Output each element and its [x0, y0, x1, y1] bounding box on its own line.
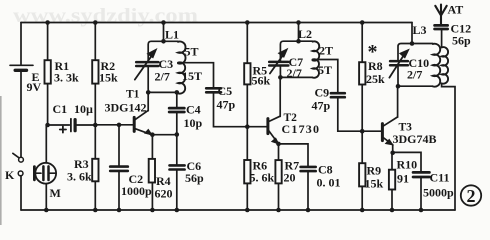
node R8 rail junction: [360, 20, 365, 25]
resistor R3: [67, 157, 99, 184]
node L2 tank top junction: [296, 39, 301, 44]
svg-text:R10: R10: [397, 158, 418, 172]
svg-text:25k: 25k: [366, 72, 385, 86]
svg-text:56p: 56p: [185, 171, 204, 185]
capacitor C2: [110, 125, 152, 210]
svg-text:5000p: 5000p: [423, 186, 454, 200]
variable capacitor C10: [389, 50, 429, 82]
inductor L1 coil: [165, 28, 202, 94]
svg-text:3DG142: 3DG142: [105, 101, 147, 115]
capacitor C11: [413, 171, 454, 211]
capacitor C9: [312, 86, 363, 132]
transistor T3 3DG74B: [382, 117, 436, 146]
svg-text:91: 91: [397, 172, 409, 186]
node T3 collector on tank: [396, 84, 401, 89]
svg-text:10µ: 10µ: [74, 102, 93, 116]
wire rail corner to L3 tank: [411, 23, 413, 44]
battery E: [10, 65, 42, 94]
svg-text:620: 620: [155, 187, 173, 201]
node C4 tank junction: [175, 90, 180, 95]
inductor L3 secondary coil: [442, 47, 448, 84]
resistor R10: [389, 153, 417, 210]
node L1 rail junction: [161, 20, 166, 25]
wire T3 collector: [397, 86, 399, 117]
svg-text:C8: C8: [318, 163, 333, 177]
capacitor C5: [206, 84, 247, 127]
svg-text:47p: 47p: [217, 98, 236, 112]
node T2 base junction: [245, 124, 250, 129]
wire T3 emitter to node: [392, 145, 394, 153]
svg-text:56p: 56p: [452, 34, 471, 48]
variable capacitor C3: [135, 49, 173, 83]
resistor R9: [359, 163, 383, 190]
wire rail junction dots bottom: [44, 208, 423, 213]
wire T1 base: [95, 124, 133, 126]
resistor R5: [244, 63, 270, 87]
wire bottom ground rail: [21, 209, 455, 211]
node R5 rail junction: [245, 20, 250, 25]
wire branch R2/R3: [94, 23, 96, 211]
figure number circle 2: [461, 185, 481, 206]
transistor T1 3DG142: [105, 89, 152, 135]
wire secondary return right side: [442, 83, 455, 210]
capacitor C6: [170, 135, 205, 211]
svg-text:C1: C1: [53, 102, 68, 116]
svg-text:10p: 10p: [184, 116, 203, 130]
wire secondary to antenna: [441, 30, 443, 47]
svg-text:47p: 47p: [312, 99, 331, 113]
svg-text:3DG74B: 3DG74B: [393, 132, 437, 146]
node C1-R2 junction: [93, 123, 98, 128]
node L3 tank top junction: [410, 41, 415, 46]
svg-text:2T: 2T: [319, 44, 333, 58]
svg-text:M: M: [50, 186, 61, 200]
svg-text:C5: C5: [218, 84, 233, 98]
wire branch R1/mic: [46, 23, 47, 211]
node emitter C4C6: [175, 132, 180, 137]
node T1 collector on tank: [146, 90, 151, 95]
svg-text:C11: C11: [430, 171, 450, 185]
resistor R6: [244, 159, 274, 185]
svg-text:5. 6k: 5. 6k: [250, 171, 275, 185]
wire branch R5/R6: [246, 23, 248, 211]
variable capacitor C7: [269, 49, 303, 80]
tank L1/C3 outline: [148, 41, 178, 92]
node T3 base junction: [360, 129, 365, 134]
svg-text:L3: L3: [413, 23, 427, 37]
wire L2 tap to C9: [313, 60, 338, 93]
svg-text:R8: R8: [368, 59, 383, 73]
wire L1 tap to C5: [178, 63, 214, 87]
node L1 tank top junction: [161, 39, 166, 44]
svg-text:15k: 15k: [99, 71, 118, 85]
svg-text:AT: AT: [448, 3, 464, 17]
wire left branch battery/switch: [20, 23, 22, 211]
svg-text:C1730: C1730: [282, 122, 321, 136]
microphone M: [34, 163, 60, 200]
svg-text:2/7: 2/7: [287, 66, 302, 80]
transistor T2 C1730: [268, 112, 320, 144]
resistor R2: [92, 59, 118, 85]
wire T2 emitter to C8: [279, 144, 309, 166]
wire R7 branch: [278, 144, 280, 210]
antenna AT: [435, 3, 463, 25]
wire T2 base: [247, 126, 266, 128]
svg-text:K: K: [5, 168, 15, 182]
resistor R7: [275, 159, 299, 185]
svg-text:0. 01: 0. 01: [317, 176, 341, 190]
node T3 emitter: [390, 151, 395, 156]
wire T2 collector: [279, 77, 281, 116]
edge smudge: [0, 96, 2, 225]
svg-text:20: 20: [284, 171, 296, 185]
wire top +V rail: [21, 22, 412, 24]
wire T3 emitter to C11: [393, 152, 421, 171]
watermark: [13, 5, 198, 27]
svg-text:R9: R9: [367, 164, 382, 178]
svg-text:5T: 5T: [185, 45, 199, 59]
capacitor C4: [169, 92, 202, 134]
svg-text:1000p: 1000p: [121, 184, 152, 198]
tank L2/C7 outline: [280, 41, 312, 77]
svg-text:15T: 15T: [182, 69, 202, 83]
svg-text:L2: L2: [298, 27, 312, 41]
inductor L2 coil: [298, 27, 333, 78]
svg-text:2: 2: [467, 186, 476, 206]
svg-text:3. 3k: 3. 3k: [54, 71, 79, 85]
node L2 rail junction: [296, 20, 301, 25]
switch K: [5, 153, 23, 182]
svg-text:15k: 15k: [365, 177, 384, 191]
resistor R8: [359, 41, 385, 86]
wire branch R8/R9: [361, 23, 363, 211]
svg-text:C4: C4: [186, 103, 201, 117]
wire L2 drop from rail: [298, 23, 300, 42]
svg-text:www.sydzdiy.com: www.sydzdiy.com: [13, 5, 198, 27]
capacitor C12: [435, 22, 472, 48]
resistor R4: [149, 135, 173, 210]
wire T3 base: [362, 130, 381, 132]
capacitor C1 electrolytic: [48, 102, 96, 133]
wire rail junction dots top: [45, 20, 97, 25]
node C2 tap on base wire: [117, 123, 122, 128]
svg-text:2/7: 2/7: [407, 68, 422, 82]
inductor L3 primary coil: [413, 23, 441, 87]
tank L3/C10 outline: [398, 44, 433, 87]
svg-text:C9: C9: [315, 86, 330, 100]
wire L1 drop from rail: [163, 23, 165, 42]
node T2 emitter: [276, 142, 281, 147]
svg-text:3. 6k: 3. 6k: [67, 170, 92, 184]
wire T1 collector: [147, 92, 149, 110]
svg-text:2/7: 2/7: [155, 70, 170, 84]
svg-text:T1: T1: [126, 89, 140, 101]
wire T1 emitter rail: [152, 134, 176, 136]
capacitor C8: [301, 163, 341, 211]
svg-text:L1: L1: [165, 28, 179, 42]
svg-text:56k: 56k: [252, 74, 271, 88]
node emitter R4: [150, 132, 155, 137]
svg-text:5T: 5T: [318, 63, 332, 77]
node C1-R1 junction: [45, 123, 50, 128]
svg-text:9V: 9V: [27, 80, 42, 94]
resistor R1: [45, 59, 80, 85]
node T2 collector on tank: [278, 75, 283, 80]
